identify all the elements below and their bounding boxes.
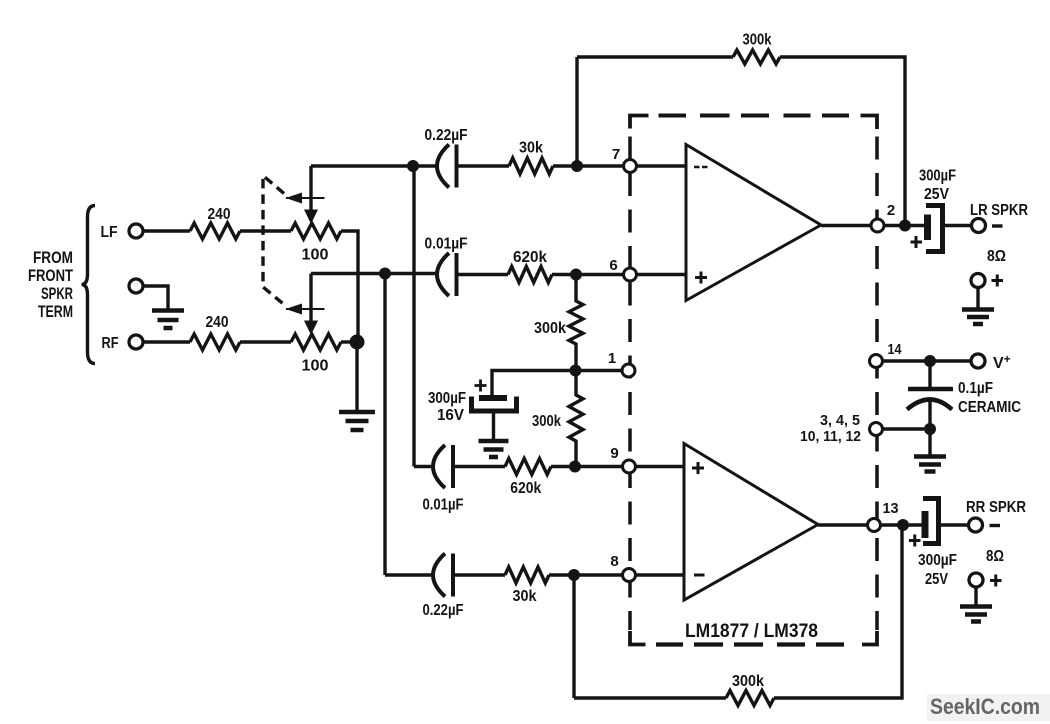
wire LF input [143, 229, 190, 232]
ground (common terminal) [152, 311, 184, 329]
svg-text:620k: 620k [513, 249, 547, 266]
junction pin 6 node [570, 269, 582, 281]
capacitor 0.01uF (row 3) [433, 445, 453, 488]
wire row 3 to cap [414, 465, 433, 468]
svg-text:25V: 25V [925, 571, 949, 588]
pin 8 terminal [623, 569, 636, 582]
junction pot ground bus [350, 335, 365, 350]
svg-text:300µF: 300µF [428, 390, 466, 407]
wire op-amp B output [818, 523, 868, 526]
wire 620k to pin 9 [551, 465, 624, 468]
wire pin 13 to output node [881, 523, 923, 526]
input terminal LF [129, 224, 143, 238]
plus sign (LR return) [992, 275, 1004, 287]
watermark background [927, 694, 1050, 721]
potentiometer 100 (LF) [291, 223, 341, 239]
pins 3-4-5-10-11-12 terminal [870, 423, 883, 436]
plus sign (output B cap) [909, 535, 921, 547]
wire cap to 620k (row 2) [457, 273, 509, 276]
wire cap to 30k (top) [457, 164, 510, 167]
svg-text:300µF: 300µF [918, 552, 957, 569]
ground (16V cap) [479, 441, 509, 457]
wire ceramic cap to ground [928, 398, 931, 455]
svg-text:LF: LF [101, 224, 118, 241]
svg-text:300k: 300k [532, 413, 561, 430]
svg-text:0.01µF: 0.01µF [423, 497, 464, 514]
svg-text:240: 240 [206, 314, 229, 331]
junction top row [407, 160, 419, 172]
junction pin 1 node [570, 365, 582, 377]
resistor 300k (bottom feedback) [726, 691, 774, 706]
svg-text:8: 8 [610, 553, 618, 570]
label FROM FRONT SPKR TERM [28, 249, 73, 321]
wiper arrow (RF pot) [309, 274, 312, 323]
wire pin 9 to op-amp B [635, 465, 684, 468]
svg-text:SeekIC.com: SeekIC.com [930, 694, 1040, 719]
svg-text:8Ω: 8Ω [986, 548, 1004, 565]
wire junction down to row 4 [383, 274, 386, 576]
wire RF input [143, 340, 190, 343]
wire 16V cap to ground [492, 414, 495, 440]
wire pin 7 to op-amp A [636, 164, 686, 167]
junction pin 9 node [569, 461, 581, 473]
wire cap to 620k (row 3) [453, 465, 505, 468]
wire pin 14 to V+ [883, 359, 972, 362]
svg-text:25V: 25V [924, 186, 950, 203]
capacitor 0.22uF (top) [437, 145, 457, 188]
wire cap to 30k (row 4) [453, 573, 505, 576]
wire pins 3-4-5 terminal to node [883, 427, 925, 430]
op-amp B triangle [684, 444, 818, 601]
resistor 300k (bias lower) [569, 371, 583, 467]
minus sign (LR speaker) [992, 224, 1003, 227]
pin 14 terminal [870, 355, 883, 368]
op-amp A non-inverting input mark [695, 272, 707, 284]
resistor 300k (top feedback) [733, 50, 780, 64]
plus sign (RR return) [990, 575, 1002, 587]
wire top feedback left segment [577, 55, 733, 58]
svg-text:SPKR: SPKR [41, 285, 73, 303]
label 300uF 25V (output A cap) [919, 168, 956, 204]
resistor 30k (row 4) [505, 567, 549, 583]
pin 13 terminal [868, 519, 881, 532]
wire common terminal to ground [143, 286, 168, 309]
label 0.1uF CERAMIC [958, 380, 1021, 416]
resistor 30k (top) [509, 158, 553, 174]
svg-text:0.22µF: 0.22µF [425, 127, 468, 144]
wire pot1 right to ground bus [341, 231, 358, 342]
brace for input group [82, 206, 96, 364]
svg-text:14: 14 [888, 341, 903, 358]
capacitor 0.01uF (row 2) [437, 253, 457, 296]
wire V+ node to bypass cap [928, 361, 931, 387]
ground (RR return) [960, 607, 992, 622]
input terminal common [129, 279, 143, 293]
pin 1 terminal [622, 364, 635, 377]
svg-text:0.1µF: 0.1µF [958, 380, 993, 397]
LR speaker terminal [972, 219, 986, 233]
wire junction down to row 3 [412, 166, 415, 467]
svg-text:300µF: 300µF [919, 168, 956, 185]
wire bottom feedback left segment [574, 696, 726, 699]
wire RR return to ground [974, 587, 977, 605]
resistor 240 (RF) [190, 334, 240, 350]
junction pin 7 node [571, 160, 583, 172]
svg-text:6: 6 [609, 257, 617, 274]
wire bottom feedback right segment [774, 525, 902, 698]
svg-text:10, 11, 12: 10, 11, 12 [800, 428, 861, 445]
wiper arrow (LF pot) [309, 166, 312, 211]
RR speaker terminal [969, 518, 983, 532]
pin 6 terminal [624, 268, 637, 281]
svg-text:FROM: FROM [33, 249, 73, 267]
ground (pot bus) [339, 412, 375, 430]
wire bottom feedback riser left [572, 575, 575, 698]
wire pin 8 to op-amp B [635, 573, 684, 576]
svg-text:100: 100 [302, 358, 329, 375]
label pins 3,4,5 / 10,11,12 [800, 412, 861, 445]
op-amp A triangle [686, 145, 821, 301]
capacitor 300uF 25V (output B) [922, 511, 929, 538]
capacitor 0.22uF (row 4) [433, 554, 453, 597]
svg-text:13: 13 [883, 500, 899, 517]
wire pin1 node to bypass cap [492, 371, 576, 396]
plus sign (16V cap) [475, 380, 487, 392]
svg-text:RR SPKR: RR SPKR [966, 499, 1026, 516]
svg-text:7: 7 [612, 146, 620, 163]
svg-text:0.01µF: 0.01µF [425, 236, 468, 253]
svg-text:3, 4, 5: 3, 4, 5 [820, 412, 860, 429]
svg-text:LM1877 / LM378: LM1877 / LM378 [685, 621, 818, 642]
junction pin 8 node [568, 569, 580, 581]
svg-text:FRONT: FRONT [28, 267, 73, 285]
capacitor 300uF 16V [479, 395, 507, 401]
wire LR return to ground [976, 288, 979, 309]
svg-text:16V: 16V [437, 407, 465, 424]
input terminal RF [129, 335, 143, 349]
resistor 300k (bias upper) [569, 275, 583, 371]
wire top feedback right segment [780, 57, 905, 226]
ground (ceramic cap) [914, 457, 946, 472]
svg-text:300k: 300k [534, 320, 566, 337]
svg-text:TERM: TERM [38, 303, 73, 321]
wire cap to RR speaker terminal [939, 523, 970, 526]
pin 2 terminal [871, 219, 884, 232]
wire pin1 node to pin 1 [576, 369, 623, 372]
junction output A node [899, 220, 911, 232]
LR speaker return terminal [971, 274, 985, 288]
resistor 620k (row 2) [508, 267, 552, 283]
label 300uF 16V [428, 390, 466, 424]
junction pins 3-4-5 node [924, 423, 936, 435]
svg-text:8Ω: 8Ω [987, 248, 1006, 265]
ganging dashed line [263, 176, 284, 305]
svg-text:2: 2 [887, 202, 895, 219]
wire 240 to pot 100 (LF) [240, 229, 291, 232]
svg-text:300k: 300k [732, 673, 764, 690]
capacitor 300uF 25V (output A) [924, 215, 931, 241]
pin 9 terminal [623, 460, 636, 473]
wire pot2 right [341, 340, 357, 343]
op-amp B non-inverting input mark [692, 462, 704, 474]
potentiometer 100 (RF) [291, 334, 341, 350]
wire 30k to pin 7 [553, 164, 624, 167]
minus sign (RR speaker) [990, 524, 1001, 527]
wire RF wiper to row 2 [311, 272, 437, 275]
svg-text:9: 9 [610, 445, 618, 462]
wire 620k to pin 6 [552, 273, 624, 276]
wire cap to LR speaker terminal [943, 224, 972, 227]
svg-text:CERAMIC: CERAMIC [958, 399, 1021, 416]
resistor 240 (LF) [190, 223, 240, 239]
wire 240 to pot 100 (RF) [240, 340, 291, 343]
plus sign (output A cap) [911, 236, 923, 248]
V+ terminal [971, 354, 985, 368]
pin 7 terminal [624, 160, 637, 173]
svg-text:LR SPKR: LR SPKR [970, 202, 1028, 219]
label 300uF 25V (output B cap) [918, 552, 957, 588]
svg-text:1: 1 [608, 350, 616, 367]
resistor 620k (row 3) [505, 459, 551, 475]
svg-text:0.22µF: 0.22µF [423, 602, 464, 619]
wire ground bus down [355, 342, 358, 410]
svg-text:620k: 620k [510, 480, 541, 497]
op-amp B inverting input mark [694, 574, 705, 577]
wire 30k to pin 8 [549, 573, 624, 576]
svg-text:300k: 300k [743, 32, 772, 49]
junction V+ node [924, 355, 936, 367]
svg-text:30k: 30k [513, 588, 537, 605]
svg-text:30k: 30k [519, 140, 543, 157]
RR speaker return terminal [969, 573, 983, 587]
wire row 4 to cap [385, 573, 433, 576]
wire top feedback riser left [575, 57, 578, 166]
ground (LR return) [962, 310, 994, 325]
wire op-amp A output [821, 224, 871, 227]
wire pin 2 to output node [884, 224, 924, 227]
IC dashed box LM1877/LM378 [630, 116, 877, 645]
svg-text:100: 100 [302, 247, 329, 264]
capacitor 0.1uF ceramic [908, 387, 953, 392]
junction row 2 [379, 268, 391, 280]
svg-text:RF: RF [102, 335, 119, 352]
wire LF wiper to top row [311, 164, 437, 167]
wire pin 6 to op-amp A [636, 273, 686, 276]
junction output B node [897, 519, 909, 531]
op-amp A inverting input mark [694, 166, 708, 169]
